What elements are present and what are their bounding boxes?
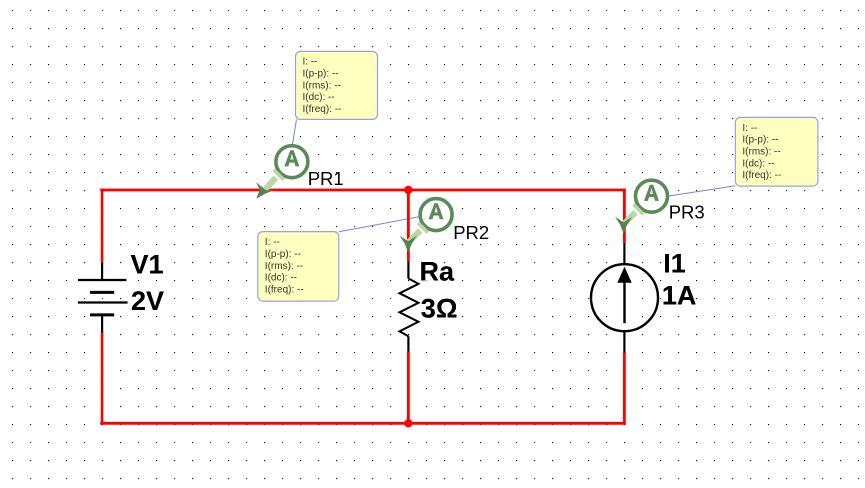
wire middle lower — [407, 352, 410, 425]
svg-text:I(dc): --: I(dc): -- — [742, 158, 774, 169]
probe PR1 letter A — [284, 150, 299, 166]
probe PR3 arrowhead — [615, 217, 632, 234]
current source I1 — [591, 243, 658, 352]
svg-text:PR3: PR3 — [669, 201, 705, 222]
readout box PR1 — [296, 51, 378, 119]
probe PR1 arrow shaft — [264, 178, 276, 190]
leader line to PR3 box — [669, 186, 736, 196]
wire left upper — [101, 189, 104, 263]
probe PR3 letter A — [644, 185, 659, 201]
probe PR2 ring — [420, 199, 452, 231]
probe PR2 circle fill — [420, 199, 452, 231]
probe PR3 circle fill — [636, 180, 668, 212]
junction bottom — [404, 419, 412, 427]
readout box PR3 — [735, 117, 818, 186]
battery V1 — [78, 263, 128, 333]
junction top — [404, 186, 412, 194]
svg-text:PR1: PR1 — [308, 168, 344, 189]
wire middle upper — [407, 190, 410, 262]
svg-text:I(p-p): --: I(p-p): -- — [742, 135, 778, 146]
svg-text:Ra: Ra — [420, 257, 455, 287]
svg-text:I(p-p): --: I(p-p): -- — [303, 69, 339, 80]
probe PR2 arrow shaft — [408, 231, 420, 244]
probe PR1 circle fill — [276, 146, 308, 178]
svg-text:I(dc): --: I(dc): -- — [303, 92, 335, 103]
probe PR1 arrowhead — [256, 182, 274, 199]
probe PR3 ring — [636, 180, 668, 212]
svg-text:I(freq): --: I(freq): -- — [265, 284, 304, 295]
probe PR2 letter A — [429, 203, 444, 219]
svg-text:I: --: I: -- — [265, 237, 280, 248]
probe PR2 arrow collar — [418, 223, 428, 233]
svg-text:I(rms): --: I(rms): -- — [742, 147, 780, 158]
current source arrowhead — [617, 267, 631, 283]
leader line to PR2 box — [339, 217, 419, 232]
wire left lower — [101, 333, 104, 425]
svg-text:1A: 1A — [662, 281, 697, 311]
probe PR1 arrow collar — [274, 170, 284, 180]
svg-text:I: --: I: -- — [742, 123, 757, 134]
svg-text:3Ω: 3Ω — [421, 293, 458, 323]
svg-text:I(freq): --: I(freq): -- — [742, 170, 781, 181]
svg-text:I(dc): --: I(dc): -- — [265, 273, 297, 284]
svg-text:I(rms): --: I(rms): -- — [265, 261, 303, 272]
svg-text:V1: V1 — [131, 250, 164, 280]
wire right upper — [623, 189, 626, 243]
resistor Ra — [400, 262, 419, 352]
svg-text:2V: 2V — [131, 286, 164, 316]
svg-text:PR2: PR2 — [453, 222, 489, 243]
wire bottom horizontal — [100, 422, 626, 425]
probe PR3 arrow shaft — [623, 212, 635, 225]
leader line to PR1 box — [292, 119, 296, 146]
wire top horizontal — [100, 189, 626, 192]
wire right lower — [623, 352, 626, 424]
svg-text:I1: I1 — [663, 248, 686, 278]
probe PR2 arrowhead — [400, 236, 417, 253]
probe PR3 arrow collar — [633, 204, 643, 214]
svg-text:I(p-p): --: I(p-p): -- — [265, 249, 301, 260]
svg-text:I(rms): --: I(rms): -- — [303, 80, 341, 91]
readout box PR2 — [258, 232, 339, 302]
probe PR1 ring — [276, 146, 308, 178]
svg-text:I(freq): --: I(freq): -- — [303, 104, 342, 115]
svg-text:I: --: I: -- — [303, 57, 318, 68]
